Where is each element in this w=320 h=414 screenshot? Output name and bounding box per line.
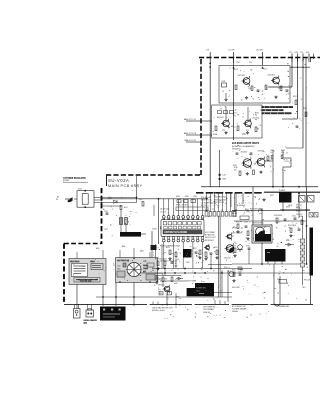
- svg-text:R233: R233: [223, 179, 227, 181]
- svg-text:R345: R345: [299, 216, 303, 218]
- svg-text:DRIVE: DRIVE: [232, 216, 237, 218]
- svg-text:D203: D203: [108, 198, 112, 200]
- svg-text:LIVE & MAX PROTECTOR: LIVE & MAX PROTECTOR: [152, 306, 173, 309]
- svg-text:2SC1705: 2SC1705: [224, 258, 231, 260]
- svg-text:POWER: POWER: [279, 190, 286, 192]
- svg-text:4.7k: 4.7k: [246, 130, 249, 132]
- svg-text:GND (-): GND (-): [296, 211, 302, 213]
- svg-text:(P)PNP: (P)PNP: [63, 180, 70, 182]
- svg-text:P301: P301: [205, 210, 209, 212]
- svg-text:S601: S601: [196, 291, 200, 293]
- svg-text:4.7k: 4.7k: [249, 62, 252, 64]
- svg-text:T201: T201: [104, 229, 108, 231]
- svg-text:S601 POWER: S601 POWER: [186, 281, 197, 283]
- svg-text:R207: R207: [124, 207, 128, 209]
- svg-text:OUT PUT: OUT PUT: [296, 214, 303, 216]
- svg-text:B401: B401: [96, 248, 100, 250]
- svg-text:R401: R401: [117, 269, 121, 271]
- svg-text:SU-V03A: SU-V03A: [108, 178, 129, 183]
- svg-text:22k 4.7k 100: 22k 4.7k 100: [160, 209, 169, 211]
- svg-text:R333: R333: [232, 246, 236, 248]
- svg-text:R217: R217: [233, 113, 237, 115]
- svg-text:R213: R213: [234, 69, 238, 71]
- svg-text:2SC1815: 2SC1815: [268, 75, 276, 77]
- svg-text:R309 C305 D305: R309 C305 D305: [214, 199, 226, 201]
- svg-text:R221: R221: [213, 134, 217, 136]
- svg-text:R311 C311 R313 C315 R319: R311 C311 R313 C315 R319: [160, 246, 180, 248]
- svg-text:C302: C302: [193, 196, 197, 198]
- svg-text:10k: 10k: [234, 169, 237, 171]
- svg-text:B403: B403: [140, 251, 144, 253]
- svg-text:1k: 1k: [271, 152, 273, 154]
- svg-text:17V: 17V: [158, 290, 161, 292]
- svg-text:C319 R321 VR301 C321: C319 R321 VR301 C321: [160, 261, 177, 263]
- svg-text:SP: SP: [262, 220, 264, 222]
- svg-text:D641 C645: D641 C645: [232, 287, 240, 289]
- svg-text:S601: S601: [186, 262, 190, 264]
- svg-text:C221: C221: [285, 161, 289, 163]
- svg-text:X201: X201: [78, 189, 82, 191]
- svg-text:2SC945SQ: 2SC945SQ: [232, 149, 241, 151]
- svg-text:50/60Hz: 50/60Hz: [232, 311, 238, 313]
- svg-text:4.7k: 4.7k: [222, 130, 225, 132]
- svg-text:C207: C207: [278, 88, 282, 90]
- svg-text:4.7k: 4.7k: [281, 152, 284, 154]
- svg-text:1 3 5 7 9: 1 3 5 7 9: [160, 211, 166, 213]
- svg-text:C201: C201: [236, 62, 240, 64]
- svg-text:SP R (+): SP R (+): [296, 205, 302, 207]
- svg-text:R347 C343: R347 C343: [288, 225, 296, 227]
- svg-text:R601 C601 D603: R601 C601 D603: [155, 259, 167, 261]
- svg-text:C335: C335: [246, 246, 250, 248]
- svg-text:1k: 1k: [255, 115, 257, 117]
- svg-text:D605: D605: [174, 283, 178, 285]
- svg-text:R219: R219: [255, 113, 259, 115]
- svg-text:B.P AM OSC: B.P AM OSC: [205, 234, 216, 237]
- svg-text:R215: R215: [263, 69, 267, 71]
- svg-text:C603: C603: [174, 266, 178, 268]
- svg-text:IC301: IC301: [152, 229, 157, 231]
- svg-text:B402: B402: [122, 246, 126, 248]
- svg-text:2SC1815: 2SC1815: [238, 75, 246, 77]
- svg-text:TREB OUT L CH: TREB OUT L CH: [184, 140, 196, 142]
- svg-text:D333 R343: D333 R343: [274, 215, 282, 217]
- svg-text:1k: 1k: [222, 91, 224, 93]
- svg-text:S403: S403: [143, 261, 147, 263]
- svg-text:2SD613: 2SD613: [158, 285, 165, 287]
- svg-text:D301: D301: [176, 196, 180, 198]
- svg-text:TO TUNER AGC: TO TUNER AGC: [201, 201, 214, 204]
- svg-text:MUTE DET: MUTE DET: [205, 240, 214, 242]
- svg-text:D601 D602 C605: D601 D602 C605: [155, 279, 167, 281]
- svg-text:(MODEL p 30-40): (MODEL p 30-40): [152, 310, 165, 312]
- svg-text:F603: F603: [159, 293, 162, 295]
- svg-text:R261: R261: [293, 96, 297, 98]
- svg-text:AN7062 SVI-3102B: AN7062 SVI-3102B: [164, 230, 187, 234]
- svg-text:R301: R301: [185, 196, 189, 198]
- svg-text:F201: F201: [222, 81, 226, 83]
- svg-text:R235: R235: [271, 150, 275, 152]
- svg-text:(R CH): (R CH): [257, 50, 264, 52]
- svg-text:R231: R231: [233, 165, 237, 167]
- svg-text:T601: T601: [302, 287, 306, 289]
- svg-text:R303: R303: [139, 199, 143, 201]
- svg-text:R611: R611: [240, 270, 243, 272]
- svg-text:2SC945: 2SC945: [217, 117, 224, 119]
- svg-text:100p: 100p: [246, 211, 250, 213]
- svg-text:R235: R235: [234, 167, 238, 169]
- svg-text:RY301 MUTING: RY301 MUTING: [252, 223, 264, 225]
- svg-text:SP DET: SP DET: [232, 228, 237, 230]
- svg-text:R341: R341: [270, 195, 274, 197]
- svg-text:2SC945: 2SC945: [258, 151, 265, 153]
- svg-text:D335: D335: [286, 240, 290, 242]
- svg-text:1k: 1k: [233, 115, 235, 117]
- svg-text:SP L (+): SP L (+): [296, 208, 302, 210]
- svg-text:24V POWER SW: 24V POWER SW: [203, 307, 216, 309]
- svg-text:R609: R609: [176, 297, 180, 299]
- svg-text:R335 D337 C337: R335 D337 C337: [250, 208, 262, 210]
- svg-text:C213: C213: [242, 134, 246, 136]
- svg-text:C303 R307 D303: C303 R307 D303: [214, 197, 226, 199]
- svg-text:C333: C333: [244, 222, 248, 224]
- svg-text:2SC945: 2SC945: [241, 152, 248, 154]
- svg-text:C205: C205: [248, 88, 252, 90]
- svg-text:(L CH): (L CH): [229, 50, 235, 52]
- svg-text:AUX BEAM LIMITER 2SB475: AUX BEAM LIMITER 2SB475: [232, 142, 260, 145]
- svg-text:R331: R331: [236, 222, 240, 224]
- svg-text:C231: C231: [223, 175, 227, 177]
- svg-text:D331: D331: [286, 207, 290, 209]
- svg-text:MAIN PCB ASSY: MAIN PCB ASSY: [108, 184, 143, 188]
- svg-text:17V: 17V: [167, 290, 170, 292]
- svg-text:R641: R641: [232, 270, 236, 272]
- svg-text:C401: C401: [117, 266, 121, 268]
